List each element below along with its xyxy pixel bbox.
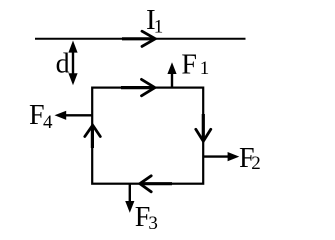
- force arrow F1 (up from top edge): [167, 62, 176, 87]
- loop current arrowhead top edge (right): [121, 86, 155, 89]
- force arrow F2 (right from right edge): [203, 152, 239, 161]
- current direction arrowhead on wire: [122, 37, 155, 40]
- force arrow F4 (left from left edge): [55, 111, 93, 120]
- svg-text:F: F: [181, 49, 197, 80]
- svg-text:3: 3: [148, 213, 158, 234]
- distance d double arrow: [68, 41, 77, 86]
- rectangular loop: [92, 88, 203, 184]
- svg-text:1: 1: [154, 16, 164, 37]
- loop current arrowhead bottom edge (left): [140, 182, 172, 185]
- wire carrying current I1: [35, 38, 246, 40]
- svg-text:1: 1: [200, 58, 210, 79]
- svg-text:d: d: [56, 48, 70, 79]
- svg-text:4: 4: [43, 112, 53, 133]
- loop current arrowhead left edge (up): [91, 126, 94, 148]
- loop current arrowhead right edge (down): [202, 114, 205, 141]
- force arrow F3 (down from bottom edge): [125, 184, 134, 213]
- svg-text:2: 2: [251, 153, 260, 174]
